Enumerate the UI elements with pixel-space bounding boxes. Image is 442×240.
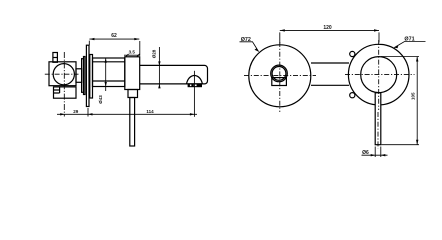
valve circle h-centerline xyxy=(45,73,79,75)
in-wall body box xyxy=(49,62,76,86)
top tab xyxy=(53,53,58,63)
valve circle xyxy=(53,64,74,85)
lug lower-left xyxy=(350,93,355,98)
arrow 120 left xyxy=(280,29,285,31)
arrow 29 right xyxy=(88,113,93,115)
pin centerline xyxy=(377,112,379,149)
dim 120 extension lines xyxy=(280,32,379,43)
dim 105 line xyxy=(416,57,418,145)
dim Ø6 extension lines xyxy=(375,147,381,158)
spout tube xyxy=(140,65,208,84)
centerlines front view xyxy=(244,40,415,149)
dim 120 line xyxy=(280,29,379,31)
hub bottom clip xyxy=(272,78,287,86)
arrow 105 bottom xyxy=(416,140,418,145)
svg-text:114: 114 xyxy=(146,109,154,114)
arrow 120 right xyxy=(374,29,379,31)
arrow Ø43 bottom xyxy=(105,82,107,87)
dim 105 extension lines xyxy=(381,57,419,145)
arrow 105 top xyxy=(416,57,418,62)
arrow 62 right xyxy=(134,38,139,40)
aerator face gap left xyxy=(190,85,192,87)
dimension texts xyxy=(73,25,415,156)
svg-text:120: 120 xyxy=(323,25,332,31)
connector block xyxy=(76,69,82,83)
svg-text:3.5: 3.5 xyxy=(129,49,136,54)
aerator ring band xyxy=(188,84,201,87)
arrow Ø28 bottom xyxy=(158,84,160,89)
lever pin (side view) xyxy=(130,98,135,147)
plate h-centerline xyxy=(244,74,316,76)
mixer plate circle Ø72 xyxy=(249,45,311,107)
arrow leader Ø72 xyxy=(255,48,259,51)
body bore lines xyxy=(93,62,125,81)
outlet pin (front view) xyxy=(375,93,381,145)
plate v-centerline xyxy=(279,42,281,112)
arrowheads xyxy=(60,29,418,156)
svg-text:Ø71: Ø71 xyxy=(404,36,414,42)
step ring xyxy=(82,59,84,93)
dimensions xyxy=(57,30,426,157)
leader Ø71 xyxy=(394,42,425,48)
svg-text:29: 29 xyxy=(73,109,79,114)
leader Ø72 xyxy=(240,42,259,52)
arrow leader Ø71 xyxy=(394,46,398,48)
svg-text:Ø28: Ø28 xyxy=(152,49,157,58)
spout inner circle xyxy=(361,57,397,93)
aerator dome xyxy=(187,75,203,83)
handle hub inner xyxy=(272,67,286,81)
dim Ø43 line xyxy=(105,58,107,91)
arrow 29 left xyxy=(60,113,64,115)
spout h-centerline xyxy=(345,74,415,76)
spout plate circle Ø71 xyxy=(348,44,409,105)
arrow Ø43 top xyxy=(105,58,107,63)
arrow 114 right xyxy=(190,113,195,115)
cartridge housing xyxy=(125,57,140,90)
arrow Ø6 right xyxy=(381,154,386,156)
dim Ø28 line xyxy=(158,47,160,88)
dim 62 extension lines xyxy=(89,41,140,56)
arrow Ø6 left xyxy=(371,154,376,156)
arrow 62 left xyxy=(89,38,94,40)
spout v-centerline xyxy=(378,40,380,110)
wall plate xyxy=(86,45,89,106)
dim 3.5 line xyxy=(124,54,140,56)
inlet fitting steps xyxy=(54,87,60,93)
svg-text:Ø6: Ø6 xyxy=(362,150,369,156)
handle hub outer xyxy=(271,65,288,82)
lug upper-left xyxy=(350,51,355,56)
aerator face gap middle xyxy=(194,85,197,87)
connecting band top xyxy=(311,62,349,64)
arrow Ø28 top xyxy=(158,61,160,66)
svg-text:62: 62 xyxy=(111,33,117,39)
connecting band bottom xyxy=(311,84,349,86)
dim 62 line xyxy=(89,38,139,40)
dim 29-114 line xyxy=(57,113,197,115)
valve circle v-centerline / 29-dim extension xyxy=(63,52,65,117)
aerator centerline / 114-dim extension xyxy=(193,71,195,117)
front view xyxy=(249,44,409,107)
dim 3.5 ticks xyxy=(126,54,140,57)
lever neck xyxy=(128,90,138,98)
wall flange rear xyxy=(84,57,86,95)
front flange xyxy=(90,55,93,99)
svg-text:Ø43: Ø43 xyxy=(98,95,103,104)
dim Ø6 line xyxy=(362,154,388,156)
body tube xyxy=(93,58,125,87)
dim ext plate bottom xyxy=(87,108,89,117)
svg-text:Ø72: Ø72 xyxy=(241,37,251,43)
svg-text:105: 105 xyxy=(410,92,415,100)
bottom inlet block xyxy=(54,87,77,98)
centerlines left view xyxy=(45,52,195,117)
